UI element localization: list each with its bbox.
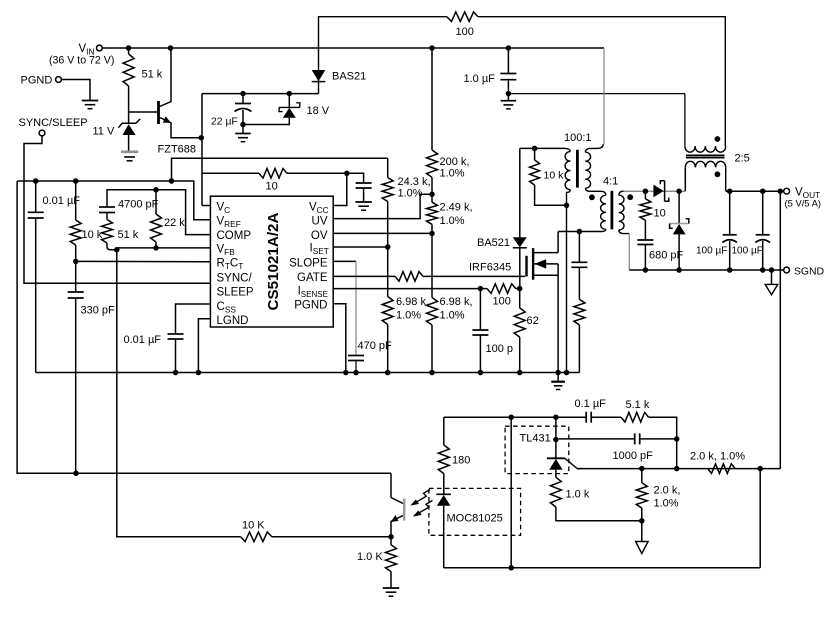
node VREF riser junction: [169, 178, 175, 184]
svg-text:51 k: 51 k: [142, 69, 163, 81]
wire output line: [624, 190, 686, 192]
resistor 100 (gate): [333, 275, 395, 277]
svg-text:1.0%: 1.0%: [440, 215, 465, 227]
ground SGND triangle (fb): [641, 521, 643, 542]
resistor 6.98 k 1.0% (OV lower): [431, 233, 433, 297]
svg-text:SYNC/: SYNC/: [217, 273, 253, 285]
node TL431 1000p junction: [553, 437, 559, 443]
node opto rail junction: [508, 414, 514, 420]
svg-text:GATE: GATE: [297, 272, 328, 284]
node 100p gnd: [478, 370, 484, 376]
winding 4:1 primary: [590, 191, 605, 195]
wire VC aux vertical: [201, 94, 203, 206]
core 2:5: [686, 154, 725, 156]
svg-text:UV: UV: [312, 216, 328, 228]
svg-text:22 µF: 22 µF: [211, 117, 238, 128]
node 100uF-2 sgnd: [760, 267, 766, 273]
svg-text:BAS21: BAS21: [332, 71, 366, 83]
node 330p/fb junction: [73, 471, 79, 477]
node zener clamp junction: [676, 188, 682, 194]
svg-text:1.0 µF: 1.0 µF: [464, 73, 496, 85]
diode output schottky: [653, 185, 663, 198]
optocoupler MOC81025 dashed box: [429, 488, 521, 535]
node 2.0k-vert top: [639, 466, 645, 472]
wire VOUT rail: [726, 190, 784, 192]
wire TL431 ref line: [577, 468, 780, 470]
resistor 100 (sense filter): [487, 284, 516, 294]
svg-text:LGND: LGND: [217, 315, 249, 327]
resistor 2.49 k 1.0%: [427, 202, 438, 224]
node pgnd gnd: [343, 370, 349, 376]
svg-text:TL431: TL431: [520, 433, 551, 445]
svg-text:22 k: 22 k: [164, 217, 185, 229]
svg-text:0.01 µF: 0.01 µF: [124, 334, 162, 346]
svg-text:100:1: 100:1: [564, 132, 592, 144]
node 22k/VFB junction: [153, 245, 159, 251]
node 100uF-1 sgnd: [727, 267, 733, 273]
wire 4:1 secondary return (gray): [628, 234, 630, 270]
node 22uF junction: [240, 91, 246, 97]
wire PGND to ground: [61, 80, 90, 101]
svg-text:0.01 µF: 0.01 µF: [43, 195, 81, 207]
svg-text:SLEEP: SLEEP: [217, 287, 254, 299]
resistor 10 (VC-VCC): [202, 172, 259, 174]
svg-text:6.98 k,: 6.98 k,: [440, 296, 473, 308]
svg-text:4700 pF: 4700 pF: [118, 199, 159, 211]
phase dot 2:5 secondary: [715, 171, 721, 177]
svg-text:470 pF: 470 pF: [358, 340, 393, 352]
ground below 11V zener: [121, 151, 138, 154]
svg-text:0.1 µF: 0.1 µF: [575, 398, 607, 410]
winding 4:1 secondary: [619, 191, 624, 195]
node VCC junction: [344, 171, 350, 177]
wire top 100-ohm run: [319, 17, 448, 94]
node comp bottom: [674, 466, 680, 472]
svg-text:1.0 K: 1.0 K: [357, 551, 383, 563]
terminal VOUT: [784, 188, 790, 194]
svg-text:100 µF: 100 µF: [732, 246, 763, 257]
svg-text:100: 100: [493, 296, 511, 308]
node comp junction: [674, 436, 680, 442]
wire VC pin stub: [202, 205, 210, 207]
wire VFB line: [117, 247, 211, 249]
wire rail riser to fb: [759, 469, 761, 568]
node fb divider bottom: [639, 518, 645, 524]
ground PGND: [82, 100, 99, 102]
svg-text:62: 62: [527, 315, 539, 327]
op-amp U1 CS51021A/2A box: [210, 196, 333, 327]
node opto collector rail junction: [508, 565, 514, 571]
wire 100:1 primary top: [520, 147, 566, 149]
svg-text:1.0%: 1.0%: [396, 310, 421, 322]
phase dot 4:1 primary: [589, 194, 595, 200]
wire opto top vertical: [510, 417, 512, 568]
node source gnd: [555, 370, 561, 376]
svg-text:OV: OV: [311, 230, 328, 242]
svg-text:6.98 k,: 6.98 k,: [396, 296, 429, 308]
svg-text:FZT688: FZT688: [158, 144, 197, 156]
wire VFB vertical to 10K: [117, 248, 241, 537]
svg-text:1.0%: 1.0%: [440, 310, 465, 322]
wire feedback top rail: [444, 416, 586, 418]
winding 100:1 secondary: [585, 144, 603, 152]
svg-text:2.49 k,: 2.49 k,: [440, 202, 473, 214]
resistor 200 k 1.0%: [431, 48, 433, 150]
ground below 22uF: [242, 125, 244, 134]
ground SGND triangle: [771, 270, 773, 284]
resistor 24.3 k 1.0%: [382, 178, 393, 202]
svg-text:PGND: PGND: [294, 300, 327, 312]
node fb/rail riser junction: [757, 466, 763, 472]
terminal SYNC/SLEEP: [39, 130, 45, 136]
wire to 2:5 primary: [508, 93, 685, 95]
svg-text:51 k: 51 k: [118, 229, 139, 241]
node lgnd gnd: [196, 370, 202, 376]
node ISET junction: [385, 244, 391, 250]
diode opto LED: [436, 493, 451, 495]
svg-text:10 k: 10 k: [544, 170, 565, 182]
node OV junction: [429, 231, 435, 237]
terminal VIN: [97, 45, 103, 51]
svg-text:100 µF: 100 µF: [696, 246, 727, 257]
node RtCt junction: [73, 259, 79, 265]
wire UV pin: [333, 194, 432, 218]
svg-text:100 p: 100 p: [486, 343, 514, 355]
resistor snubber: [578, 267, 580, 299]
ground VCC bypass: [355, 201, 372, 203]
node sgnd sym: [769, 267, 775, 273]
phase dot 2:5 primary: [715, 136, 721, 142]
core 100:1: [576, 150, 579, 188]
wire PGND pin: [333, 304, 346, 373]
svg-text:IRF6345: IRF6345: [469, 262, 511, 274]
node feedback drop: [778, 188, 784, 194]
node VIN/200k junction: [429, 45, 435, 51]
node 18V junction: [287, 91, 293, 97]
wire SGND rail: [629, 269, 783, 271]
svg-text:2:5: 2:5: [735, 153, 750, 165]
ground 1.0K: [383, 587, 400, 589]
resistor 51 k (VIN divider): [128, 48, 130, 54]
capacitor VCC bypass: [347, 173, 364, 183]
terminal PGND: [56, 77, 62, 83]
winding 2:5 primary: [684, 94, 686, 147]
svg-text:(5 V/5 A): (5 V/5 A): [785, 198, 821, 209]
node emitter junction: [199, 135, 205, 141]
svg-text:4:1: 4:1: [603, 176, 618, 188]
node 0.01uF junction: [33, 178, 39, 184]
wire SYNC/SLEEP to IC pin: [24, 136, 210, 283]
wire RtCt pin: [76, 260, 211, 262]
svg-text:24.3 k,: 24.3 k,: [398, 176, 431, 188]
resistor 6.98 k 1.0% (ISET lower): [387, 247, 389, 297]
wire ISET pin: [333, 246, 388, 248]
node 22uF/18V anode junction: [240, 122, 246, 128]
svg-text:10 k: 10 k: [82, 229, 103, 241]
wire VREF riser branch: [172, 158, 388, 181]
node 1.0uF bottom junction: [506, 91, 512, 97]
node zener sgnd: [676, 267, 682, 273]
node VIN/51k junction: [126, 45, 132, 51]
wire 0.01uF to ground rail: [35, 218, 37, 373]
wire aux rail: [202, 93, 319, 95]
node 10k junction: [73, 178, 79, 184]
node css cap gnd: [173, 370, 179, 376]
wire 330pF down to feedback line: [75, 298, 77, 473]
node opto emitter junction: [388, 534, 394, 540]
svg-text:11 V: 11 V: [93, 126, 115, 138]
svg-text:CS51021A/2A: CS51021A/2A: [265, 213, 282, 311]
node ISENSE/BA521 junction: [517, 286, 523, 292]
svg-text:SYNC/SLEEP: SYNC/SLEEP: [19, 117, 88, 129]
node 680p sgnd: [643, 267, 649, 273]
svg-text:100: 100: [456, 26, 474, 38]
opto light arrows: [414, 490, 431, 504]
wire SLOPE pin: [333, 260, 356, 262]
phase dot 4:1 secondary: [627, 194, 633, 200]
svg-text:680 pF: 680 pF: [649, 250, 684, 262]
node UV junction: [429, 191, 435, 197]
node 100:1 gnd: [564, 370, 570, 376]
node 100p junction: [478, 286, 484, 292]
wire 24.3k drop to ISET: [387, 158, 389, 177]
core 4:1: [611, 191, 614, 230]
opamp TL431 dashed box: [505, 426, 569, 473]
winding 100:1 primary: [565, 148, 570, 151]
terminal SGND: [784, 267, 790, 273]
svg-text:2.0 k,: 2.0 k,: [654, 485, 681, 497]
wire bottom rail: [444, 567, 761, 569]
svg-text:MOC81025: MOC81025: [447, 513, 503, 525]
wire VCC pin stub: [333, 173, 347, 205]
svg-text:1.0%: 1.0%: [654, 498, 679, 510]
node 62 gnd: [517, 370, 523, 376]
zener output clamp: [678, 191, 680, 223]
svg-text:18 V: 18 V: [307, 105, 330, 117]
node VIN/1.0uF junction: [506, 45, 512, 51]
svg-text:COMP: COMP: [217, 230, 252, 242]
node 22k top junction: [153, 187, 159, 193]
svg-text:1000 pF: 1000 pF: [613, 450, 654, 462]
transistor FZT688: [129, 111, 158, 113]
svg-text:5.1 k: 5.1 k: [626, 399, 650, 411]
node 10k damper top: [532, 146, 538, 152]
capacitor snubber: [578, 232, 580, 263]
svg-text:PGND: PGND: [21, 75, 53, 87]
svg-text:1.0 k: 1.0 k: [566, 489, 590, 501]
node TL431 cathode junction: [553, 414, 559, 420]
svg-text:SLOPE: SLOPE: [289, 258, 328, 270]
wire ISENSE pin: [333, 288, 480, 290]
node iset-div gnd: [385, 370, 391, 376]
ground 1.0uF: [507, 94, 509, 101]
winding 2:5 secondary: [684, 166, 686, 168]
svg-text:180: 180: [452, 455, 470, 467]
node ov-div gnd: [429, 370, 435, 376]
svg-text:1.0%: 1.0%: [398, 188, 423, 200]
wire VREF rail: [17, 181, 210, 220]
svg-text:2.0 k, 1.0%: 2.0 k, 1.0%: [690, 451, 745, 463]
wire VOUT feedback drop: [779, 191, 781, 468]
wire to 2:5 secondary: [684, 167, 686, 191]
node 51k/VFB junction: [114, 247, 120, 253]
svg-text:330 pF: 330 pF: [81, 305, 116, 317]
wire GATE to MOSFET: [423, 275, 525, 277]
svg-text:10: 10: [266, 181, 278, 193]
ground main: [557, 373, 559, 382]
node VIN/FZT688 collector junction: [168, 45, 174, 51]
node 100:1 primary bottom junction: [564, 203, 570, 209]
node 100uF-1: [727, 188, 733, 194]
wire LGND: [198, 319, 210, 373]
node 10-ohm output junction: [643, 188, 649, 194]
node 100uF-2: [760, 188, 766, 194]
svg-text:10 K: 10 K: [242, 520, 265, 532]
wire OV pin: [333, 232, 432, 234]
wire VIN to 100:1 secondary (gray riser): [602, 48, 605, 144]
svg-text:1.0%: 1.0%: [440, 168, 465, 180]
svg-text:200 k,: 200 k,: [440, 156, 470, 168]
diode BAS21: [312, 70, 326, 81]
svg-text:BA521: BA521: [477, 237, 510, 249]
wire VIN rail: [102, 47, 604, 49]
svg-text:10: 10: [654, 208, 666, 220]
regulator TL431 symbol: [555, 417, 557, 458]
transistor opto phototransistor: [17, 181, 391, 473]
wire main ground rail: [36, 372, 580, 374]
node 470p gnd: [353, 370, 359, 376]
node snubber junction: [577, 229, 583, 235]
svg-text:SGND: SGND: [794, 267, 824, 278]
svg-text:(36 V to 72 V): (36 V to 72 V): [49, 55, 114, 67]
